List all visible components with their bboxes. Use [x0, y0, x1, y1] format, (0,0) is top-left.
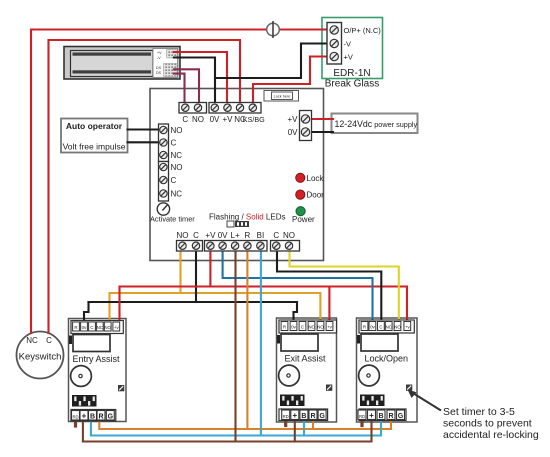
wire R branch exit assist (orange) [312, 420, 314, 429]
wire relay NO drop (amber) [179, 249, 181, 293]
svg-text:+V: +V [287, 115, 298, 124]
wire break glass +V to controller KS/BG (red) [253, 57, 333, 105]
wire NO to lock/open NO (yellow) [290, 249, 399, 320]
svg-text:0V: 0V [210, 115, 220, 124]
wire maglock 0V to controller 0V (black) [174, 58, 215, 105]
lock/open bottom terminal strip [358, 409, 406, 421]
lock/open DIP switches [360, 395, 385, 407]
wire B branch exit assist (cyan) [303, 420, 305, 436]
exit assist relay box [281, 334, 318, 351]
svg-text:NC: NC [26, 336, 38, 345]
svg-text:0v: 0v [291, 324, 296, 329]
entry assist DIP switches [72, 395, 97, 407]
lock/open relay box [361, 334, 398, 351]
svg-text:-V: -V [157, 56, 161, 60]
svg-text:+v: +v [327, 324, 333, 329]
LED door [296, 190, 324, 200]
svg-text:R: R [310, 413, 315, 420]
exit assist sounder [279, 365, 300, 386]
svg-text:RD: RD [359, 414, 365, 419]
set timer annotation text [443, 406, 539, 441]
lock here box [264, 91, 299, 102]
wire keyswitch C to controller NC (red) [49, 40, 241, 333]
svg-text:KS/BG: KS/BG [243, 115, 265, 124]
keyswitch labels [19, 336, 62, 363]
svg-text:NC: NC [308, 324, 314, 329]
svg-text:B: B [378, 413, 383, 420]
svg-text:Entry Assist: Entry Assist [73, 354, 121, 364]
keyswitch [17, 332, 64, 379]
svg-text:B: B [90, 413, 95, 420]
controller bottom strip +V 0V L+ R BI [205, 241, 268, 252]
controller bottom strip NO C [177, 241, 203, 252]
svg-text:EDR-1N: EDR-1N [333, 68, 370, 79]
wire 0V junction to break glass -V (black) [215, 44, 333, 79]
LED power [292, 207, 315, 224]
wire +V bus (red) [120, 287, 408, 323]
svg-text:Activate timer: Activate timer [150, 215, 195, 224]
entry assist sounder [71, 366, 92, 387]
svg-text:0V: 0V [288, 128, 298, 137]
svg-text:NC: NC [97, 325, 103, 330]
svg-text:Exit Assist: Exit Assist [285, 354, 327, 364]
svg-text:DS: DS [156, 66, 162, 70]
12-24Vdc power supply box [332, 114, 418, 134]
svg-text:NO: NO [171, 126, 183, 135]
svg-text:G: G [108, 413, 114, 420]
svg-text:B: B [301, 413, 306, 420]
left strip labels [171, 126, 183, 199]
svg-text:Door: Door [307, 191, 325, 200]
wire +V drop (red) [209, 249, 211, 287]
entry assist relay box [73, 335, 110, 352]
svg-text:C: C [171, 176, 177, 185]
svg-text:NO: NO [394, 324, 401, 329]
svg-text:NO: NO [283, 231, 295, 240]
svg-text:+V: +V [344, 53, 353, 62]
svg-text:R: R [283, 324, 286, 329]
top strip labels [182, 115, 265, 124]
svg-text:0v: 0v [82, 325, 87, 330]
svg-text:NC: NC [171, 151, 183, 160]
svg-text:R: R [363, 324, 366, 329]
svg-text:BI: BI [257, 231, 265, 240]
svg-text:+V: +V [222, 115, 233, 124]
svg-text:Auto operator: Auto operator [66, 121, 123, 131]
wire +V branch to exit assist (red) [328, 287, 330, 321]
svg-text:NO: NO [317, 324, 324, 329]
wire auto operator to C (black) [128, 141, 162, 143]
svg-text:Break Glass: Break Glass [325, 79, 379, 90]
svg-text:O/P+ (N.C): O/P+ (N.C) [344, 26, 382, 35]
lock/open top terminal strip [359, 320, 414, 333]
wire entry assist 0v hook (black) [84, 302, 89, 323]
wire maglock DS to controller NO (maroon) [174, 69, 199, 104]
wire + bus (brown) [83, 420, 372, 442]
svg-text:+: + [82, 411, 87, 420]
svg-text:Lock: Lock [307, 174, 325, 183]
wire auto operator to NO (black) [128, 128, 162, 130]
controller top strip C NO [179, 103, 207, 114]
exit assist LED indicator [326, 385, 332, 391]
wire relay NO bus (amber) [110, 293, 321, 322]
auto operator box [61, 119, 128, 153]
wire relay C bus (black) [89, 301, 298, 303]
activate timer dial [157, 203, 169, 215]
svg-text:Lock/Open: Lock/Open [365, 354, 409, 364]
wire 0V to lock/open 0v (navy) [223, 249, 373, 320]
svg-text:C: C [90, 325, 93, 330]
controller board [150, 89, 324, 261]
bottom strip labels [177, 231, 296, 240]
wire power terminal 0V to supply (black) [311, 131, 333, 133]
power terminal labels [287, 115, 298, 137]
svg-text:R: R [74, 325, 77, 330]
wire L+ drop (brown) [234, 249, 236, 442]
svg-text:NO: NO [171, 163, 183, 172]
exit assist bottom terminal strip [279, 409, 328, 421]
svg-text:Set timer to 3-5: Set timer to 3-5 [443, 406, 515, 418]
svg-text:C: C [301, 324, 304, 329]
set timer annotation arrow [408, 390, 442, 411]
svg-text:G: G [398, 413, 404, 420]
svg-text:0V: 0V [218, 231, 228, 240]
svg-text:R: R [388, 413, 393, 420]
entry assist LED indicator [118, 385, 124, 391]
svg-text:C: C [379, 324, 382, 329]
entry assist top terminal strip [71, 321, 123, 334]
svg-text:+v: +v [405, 324, 411, 329]
svg-text:NC: NC [171, 190, 183, 199]
exit assist side bar [277, 335, 280, 344]
controller left strip block 1 [159, 124, 169, 162]
lock/open module body [357, 318, 418, 422]
power terminals +V 0V [300, 111, 312, 141]
entry assist bottom terminal strip [71, 410, 116, 422]
svg-text:Lock here: Lock here [274, 95, 291, 99]
inline fuse symbol [267, 21, 280, 38]
svg-text:-V: -V [344, 40, 352, 49]
svg-text:seconds to prevent: seconds to prevent [443, 418, 532, 430]
controller top strip 0V +V NC KS/BG [209, 103, 261, 114]
svg-text:NC: NC [386, 324, 392, 329]
svg-text:C: C [193, 231, 199, 240]
maglock [64, 47, 180, 80]
svg-text:C: C [171, 139, 177, 148]
wire lock/open RD stub (brown) [360, 421, 363, 426]
lock/open sounder [359, 365, 380, 386]
LED lock [296, 173, 325, 183]
wire power terminal +V to supply (red) [311, 118, 333, 120]
svg-text:G: G [319, 413, 325, 420]
svg-text:RD: RD [72, 414, 78, 419]
svg-text:+V: +V [205, 231, 216, 240]
wire + branch exit assist (brown) [294, 420, 296, 442]
wire R bus (orange) [99, 420, 391, 429]
break glass terminal strip [327, 23, 342, 65]
svg-text:accidental re-locking: accidental re-locking [443, 429, 539, 441]
wire entry assist RD stub (brown) [74, 421, 77, 426]
controller bottom strip C NO [271, 241, 300, 252]
controller left strip block 2 [159, 162, 169, 202]
wire keyswitch NC to break glass O/P+ (red) [31, 30, 333, 334]
wire exit assist RD stub (brown) [284, 421, 287, 426]
svg-text:R: R [98, 413, 103, 420]
wire relay C drop (black) [195, 249, 197, 302]
svg-text:Volt free impulse: Volt free impulse [63, 142, 126, 152]
wire maglock +V to controller +V (red) [174, 52, 227, 104]
svg-text:+: + [369, 411, 374, 420]
wire C to lock/open C (black) [277, 249, 381, 320]
svg-text:Keyswitch: Keyswitch [19, 352, 62, 363]
break glass EDR-1N box [322, 18, 383, 79]
lock/open LED indicator [406, 385, 412, 391]
exit assist top terminal strip [279, 320, 337, 333]
svg-text:NO: NO [177, 231, 189, 240]
exit assist DIP switches [280, 395, 305, 407]
entry assist module body [69, 319, 127, 422]
svg-text:Power: Power [292, 215, 315, 224]
svg-text:Flashing / Solid LEDs: Flashing / Solid LEDs [209, 213, 286, 222]
wire BI drop (cyan) [260, 249, 262, 436]
entry assist side bar [69, 336, 72, 345]
wire maglock DS to controller C (maroon) [174, 74, 185, 104]
svg-text:+: + [292, 411, 297, 420]
lock/open side bar [357, 335, 360, 344]
svg-text:L+: L+ [231, 231, 240, 240]
wire B bus (cyan) [91, 420, 381, 436]
svg-text:R: R [245, 231, 251, 240]
dip switch icons [227, 221, 249, 227]
exit assist module body [277, 318, 337, 422]
svg-text:NO: NO [104, 325, 111, 330]
auto operator labels [63, 121, 126, 152]
svg-text:C: C [273, 231, 279, 240]
svg-text:+V: +V [157, 51, 162, 55]
svg-text:C: C [182, 115, 188, 124]
break glass labels [325, 26, 382, 90]
svg-text:NO: NO [192, 115, 204, 124]
svg-text:RD: RD [283, 414, 289, 419]
svg-text:+v: +v [114, 325, 120, 330]
svg-text:C: C [46, 336, 52, 345]
svg-text:DS: DS [156, 71, 162, 75]
svg-text:0v: 0v [370, 324, 375, 329]
wire exit assist 0v hook (black) [294, 302, 298, 323]
wire R drop (orange) [246, 249, 248, 429]
svg-text:12-24Vdc power supply: 12-24Vdc power supply [335, 119, 418, 129]
